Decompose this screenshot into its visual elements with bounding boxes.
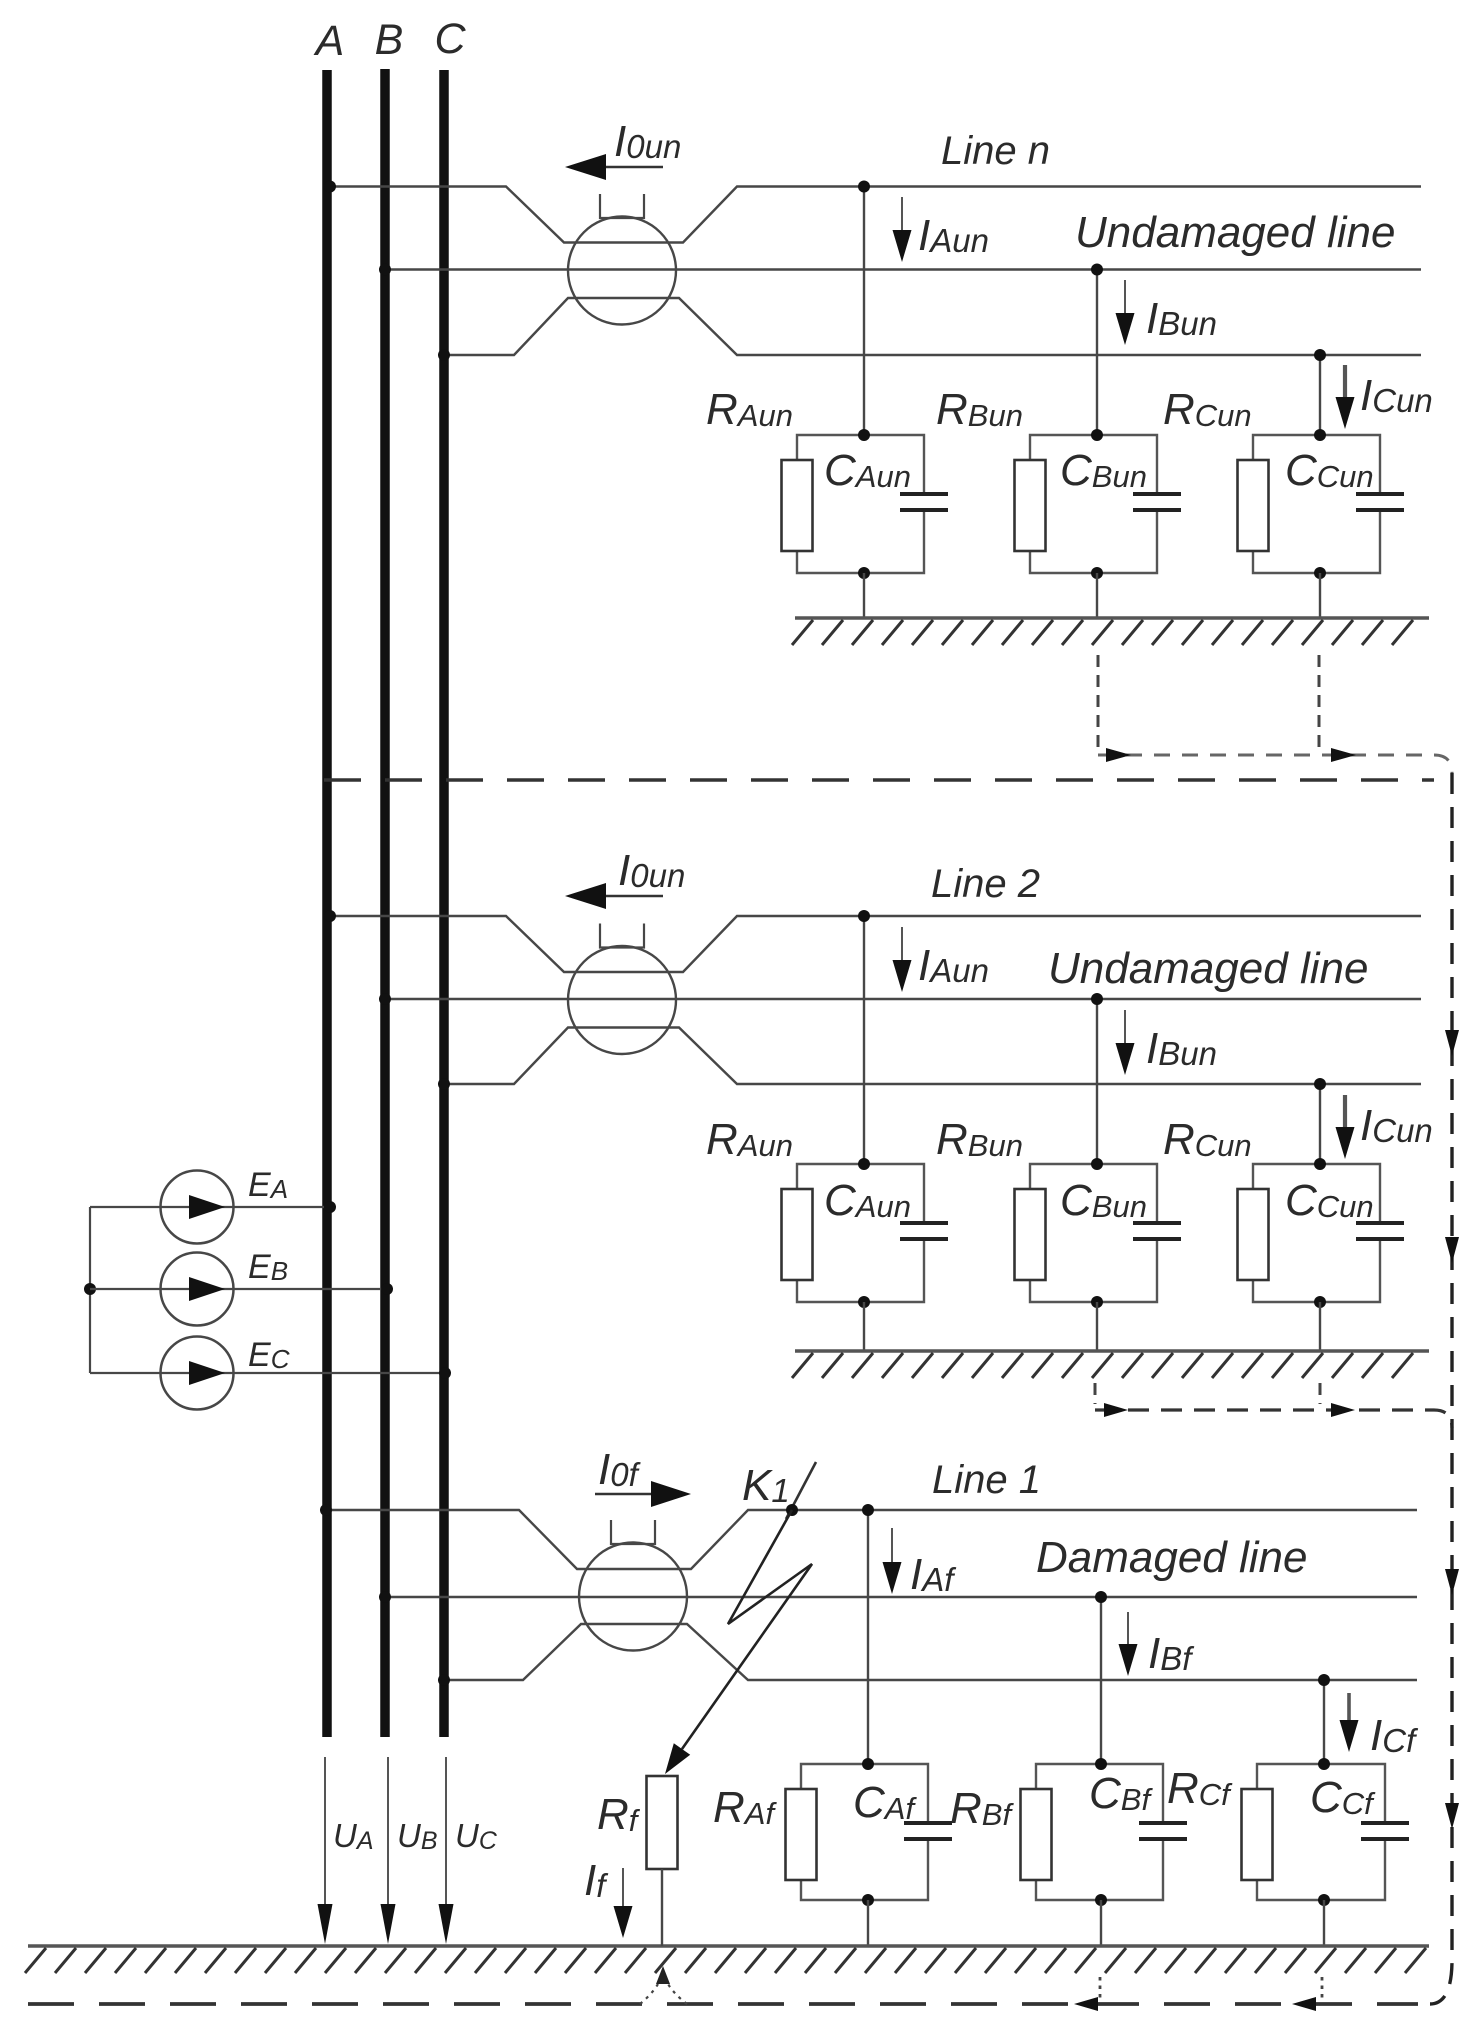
wire EC to bus C bbox=[90, 1372, 445, 1374]
current transformer T Line n bbox=[568, 217, 676, 325]
RC box edges A Line 1 bbox=[801, 1764, 928, 1900]
arrow I0un Line n bbox=[565, 154, 663, 180]
label IAf bbox=[910, 1550, 957, 1599]
node phase C tap on bus C Line 2 bbox=[438, 1078, 450, 1090]
wire box B to ground Line 1 bbox=[1100, 1900, 1102, 1946]
node box C top Line n bbox=[1314, 429, 1326, 441]
wire phase C Line n bbox=[444, 298, 1421, 355]
svg-text:Damaged line: Damaged line bbox=[1036, 1533, 1308, 1582]
source EC bbox=[161, 1337, 234, 1410]
node box B bottom Line n bbox=[1091, 567, 1103, 579]
label EC bbox=[248, 1336, 290, 1374]
label IAun Line n bbox=[918, 211, 989, 260]
RC box edges C Line n bbox=[1253, 435, 1380, 573]
node phase A tap on bus A Line 1 bbox=[320, 1504, 332, 1516]
label RBf bbox=[950, 1784, 1014, 1833]
svg-text:A: A bbox=[313, 17, 345, 65]
capacitor CB Line 2 bbox=[1133, 1223, 1181, 1239]
node tap C top Line n bbox=[1314, 349, 1326, 361]
label EA bbox=[248, 1166, 288, 1204]
label RBun Line n bbox=[936, 385, 1023, 434]
resistor RB Line n bbox=[1015, 460, 1046, 551]
source EA bbox=[161, 1171, 234, 1244]
arrowhead return vertical 3 bbox=[1445, 1569, 1459, 1595]
label CBf bbox=[1089, 1769, 1153, 1818]
svg-text:B: B bbox=[375, 16, 404, 64]
label RAf bbox=[713, 1783, 777, 1832]
arrowhead return vertical 4 bbox=[1445, 1803, 1459, 1829]
dashed return vertical bbox=[1430, 773, 1452, 2004]
wire box A to ground Line 2 bbox=[863, 1302, 865, 1351]
node EB on bus B bbox=[381, 1283, 393, 1295]
bus C bbox=[439, 70, 449, 1737]
wire phase C Line 2 bbox=[444, 1028, 1421, 1085]
arrow If bbox=[614, 1868, 633, 1938]
wire phase A Line 2 bbox=[330, 916, 1421, 972]
node K1 fault point bbox=[786, 1504, 798, 1516]
wire source rail bbox=[89, 1207, 91, 1373]
RC box edges C Line 1 bbox=[1257, 1764, 1385, 1900]
label IAun Line 2 bbox=[918, 941, 989, 990]
resistor RC Line 1 bbox=[1242, 1789, 1273, 1880]
arrow IBun Line 2 bbox=[1116, 1010, 1135, 1075]
arrow IAun Line 2 bbox=[893, 927, 912, 992]
RC box edges C Line 2 bbox=[1253, 1164, 1380, 1302]
label ICun Line n bbox=[1360, 371, 1433, 420]
wire Rf to ground bbox=[661, 1869, 663, 1946]
node source rail bbox=[84, 1283, 96, 1295]
node phase A tap on bus A Line n bbox=[324, 181, 336, 193]
label CCun Line 2 bbox=[1285, 1176, 1374, 1225]
node box C bottom Line 2 bbox=[1314, 1296, 1326, 1308]
label RAun Line n bbox=[706, 385, 793, 434]
label I0un Line 2 bbox=[618, 846, 685, 895]
bus B bbox=[380, 69, 390, 1737]
dashed return stub C Line n bbox=[1318, 655, 1321, 750]
label RBun Line 2 bbox=[936, 1115, 1023, 1164]
arrow IAf bbox=[883, 1528, 902, 1594]
label If bbox=[584, 1856, 609, 1905]
node box B top Line n bbox=[1091, 429, 1103, 441]
wire box C to ground Line n bbox=[1319, 573, 1321, 618]
node box C bottom Line 1 bbox=[1318, 1894, 1330, 1906]
bus A bbox=[322, 70, 332, 1737]
wire phase B Line 1 bbox=[385, 1596, 1417, 1598]
dashed return path Line n bbox=[1098, 755, 1452, 773]
arrow ICun Line n bbox=[1336, 365, 1355, 429]
arrow ICun Line 2 bbox=[1336, 1095, 1355, 1159]
resistor RC Line 2 bbox=[1238, 1189, 1269, 1280]
arrowhead return 2 Line 2 bbox=[1331, 1403, 1355, 1417]
wire phase A Line 1 bbox=[326, 1510, 1417, 1569]
RC box edges B Line 2 bbox=[1030, 1164, 1157, 1302]
wire box B to ground Line 2 bbox=[1096, 1302, 1098, 1351]
resistor RA Line 1 bbox=[786, 1789, 817, 1880]
label Rf bbox=[597, 1790, 641, 1839]
dashed bottom return line bbox=[28, 2002, 1418, 2006]
capacitor CB Line n bbox=[1133, 494, 1181, 510]
T Line n secondary terminals bbox=[600, 194, 644, 218]
capacitor CA Line n bbox=[900, 494, 948, 510]
capacitor CA Line 2 bbox=[900, 1223, 948, 1239]
node box B bottom Line 1 bbox=[1095, 1894, 1107, 1906]
ground Line 2 bbox=[792, 1351, 1429, 1378]
label UC bbox=[455, 1817, 498, 1855]
svg-text:Line n: Line n bbox=[941, 129, 1050, 173]
arrowhead return 1 Line 2 bbox=[1104, 1403, 1128, 1417]
node box C top Line 1 bbox=[1318, 1758, 1330, 1770]
T Line 1 secondary terminals bbox=[611, 1520, 655, 1544]
svg-text:Line 2: Line 2 bbox=[931, 862, 1040, 906]
switch K1 slash bbox=[786, 1462, 816, 1519]
capacitor CC Line 1 bbox=[1361, 1823, 1409, 1839]
dashed partition line bbox=[324, 778, 1434, 781]
capacitor CC Line n bbox=[1356, 494, 1404, 510]
bus C label bbox=[434, 15, 466, 63]
label Line n bbox=[941, 129, 1050, 173]
label RCun Line n bbox=[1163, 385, 1252, 434]
label Damaged line bbox=[1036, 1533, 1308, 1582]
arrow UB bbox=[381, 1757, 396, 1944]
label CCf bbox=[1310, 1773, 1376, 1822]
arrow ICf bbox=[1340, 1693, 1359, 1752]
wire box C to ground Line 2 bbox=[1319, 1302, 1321, 1351]
node box A bottom Line 1 bbox=[862, 1894, 874, 1906]
wire tap phase A Line 2 bbox=[863, 916, 865, 1164]
wire tap phase A Line 1 bbox=[867, 1510, 869, 1764]
bus A label bbox=[313, 17, 345, 65]
arrowhead return 1 Line n bbox=[1106, 748, 1131, 762]
label RAun Line 2 bbox=[706, 1115, 793, 1164]
label Undamaged line Line n bbox=[1075, 208, 1395, 257]
label CCun Line n bbox=[1285, 446, 1374, 495]
node EA on bus A bbox=[324, 1201, 336, 1213]
node tap A top Line n bbox=[858, 181, 870, 193]
source EB bbox=[161, 1253, 234, 1326]
node phase C tap on bus C Line 1 bbox=[438, 1674, 450, 1686]
capacitor CC Line 2 bbox=[1356, 1223, 1404, 1239]
node box A top Line 2 bbox=[858, 1158, 870, 1170]
node box B top Line 2 bbox=[1091, 1158, 1103, 1170]
node EC on bus C bbox=[439, 1367, 451, 1379]
wire box A to ground Line n bbox=[863, 573, 865, 618]
node box C bottom Line n bbox=[1314, 567, 1326, 579]
current transformer T Line 2 bbox=[568, 946, 676, 1054]
ground Line 1 bbox=[25, 1946, 1429, 1973]
wire tap phase B Line 1 bbox=[1100, 1597, 1102, 1764]
label RCf bbox=[1167, 1764, 1233, 1813]
wire tap phase B Line n bbox=[1096, 270, 1098, 436]
wire phase B Line n bbox=[385, 268, 1421, 270]
arrow I0un Line 2 bbox=[565, 883, 663, 909]
node tap B top Line 2 bbox=[1091, 993, 1103, 1005]
arrowhead return 2 Line n bbox=[1331, 748, 1356, 762]
svg-text:Line 1: Line 1 bbox=[932, 1458, 1041, 1502]
wire phase C Line 1 bbox=[444, 1624, 1417, 1680]
node phase B tap on bus B Line 1 bbox=[379, 1591, 391, 1603]
node box A top Line 1 bbox=[862, 1758, 874, 1770]
label CAun Line 2 bbox=[824, 1176, 911, 1225]
wire tap phase B Line 2 bbox=[1096, 999, 1098, 1164]
node box B top Line 1 bbox=[1095, 1758, 1107, 1770]
label CAf bbox=[853, 1778, 917, 1827]
capacitor CB Line 1 bbox=[1139, 1823, 1187, 1839]
label I0un Line n bbox=[614, 117, 681, 166]
node tap B top Line n bbox=[1091, 264, 1103, 276]
resistor RA Line 2 bbox=[782, 1189, 813, 1280]
arrow IBf bbox=[1119, 1612, 1138, 1676]
resistor Rf bbox=[647, 1776, 678, 1869]
RC box edges A Line n bbox=[797, 435, 924, 573]
svg-text:Undamaged line: Undamaged line bbox=[1048, 944, 1368, 993]
bus B label bbox=[375, 16, 404, 64]
label CBun Line 2 bbox=[1060, 1176, 1147, 1225]
dotted stub bottom B bbox=[1099, 1977, 1102, 2000]
arrow IAun Line n bbox=[893, 197, 912, 262]
wire phase A Line n bbox=[330, 187, 1421, 243]
label ICf bbox=[1370, 1711, 1419, 1760]
label IBun Line 2 bbox=[1146, 1024, 1217, 1073]
wire tap phase A Line n bbox=[863, 187, 865, 436]
arrowhead return vertical 2 bbox=[1445, 1237, 1459, 1263]
label K1 bbox=[742, 1461, 790, 1510]
node tap C top Line 1 bbox=[1318, 1674, 1330, 1686]
T Line 2 secondary terminals bbox=[600, 924, 644, 948]
label IBun Line n bbox=[1146, 294, 1217, 343]
current transformer T Line 1 bbox=[579, 1543, 687, 1651]
label Line 1 bbox=[932, 1458, 1041, 1502]
label RCun Line 2 bbox=[1163, 1115, 1252, 1164]
arrowhead bottom return 1 bbox=[1074, 1997, 1098, 2011]
resistor RB Line 2 bbox=[1015, 1189, 1046, 1280]
wire tap phase C Line 1 bbox=[1323, 1680, 1325, 1764]
svg-text:C: C bbox=[434, 15, 466, 63]
RC box edges B Line 1 bbox=[1036, 1764, 1163, 1900]
label Line 2 bbox=[931, 862, 1040, 906]
wire tap phase C Line 2 bbox=[1319, 1084, 1321, 1164]
RC box edges B Line n bbox=[1030, 435, 1157, 573]
wire tap phase C Line n bbox=[1319, 355, 1321, 435]
node phase B tap on bus B Line 2 bbox=[379, 993, 391, 1005]
arrow IBun Line n bbox=[1116, 280, 1135, 345]
resistor RC Line n bbox=[1238, 460, 1269, 551]
node box C top Line 2 bbox=[1314, 1158, 1326, 1170]
wire phase B Line 2 bbox=[385, 998, 1421, 1000]
node phase B tap on bus B Line n bbox=[379, 264, 391, 276]
svg-text:Undamaged line: Undamaged line bbox=[1075, 208, 1395, 257]
dashed return path Line 2 bbox=[1095, 1410, 1452, 1428]
dashed return stub B Line 2 bbox=[1094, 1383, 1097, 1404]
node box A bottom Line 2 bbox=[858, 1296, 870, 1308]
arrow UC bbox=[439, 1757, 454, 1944]
RC box edges A Line 2 bbox=[797, 1164, 924, 1302]
label CAun Line n bbox=[824, 446, 911, 495]
dashed return stub B Line n bbox=[1097, 655, 1100, 750]
label I0f Line 1 bbox=[598, 1445, 642, 1494]
node tap B top Line 1 bbox=[1095, 1591, 1107, 1603]
label EB bbox=[248, 1248, 288, 1286]
node box A top Line n bbox=[858, 429, 870, 441]
dotted stub bottom C bbox=[1321, 1977, 1324, 2000]
node phase C tap on bus C Line n bbox=[438, 349, 450, 361]
label ICun Line 2 bbox=[1360, 1101, 1433, 1150]
node tap C top Line 2 bbox=[1314, 1078, 1326, 1090]
node phase A tap on bus A Line 2 bbox=[324, 910, 336, 922]
node box B bottom Line 2 bbox=[1091, 1296, 1103, 1308]
label IBf bbox=[1148, 1629, 1195, 1678]
node tap A top Line 1 bbox=[862, 1504, 874, 1516]
arrow UA bbox=[318, 1757, 333, 1944]
arrowhead return vertical 1 bbox=[1445, 1030, 1459, 1056]
wire box A to ground Line 1 bbox=[867, 1900, 869, 1946]
resistor RB Line 1 bbox=[1021, 1789, 1052, 1880]
node box A bottom Line n bbox=[858, 567, 870, 579]
dashed return stub C Line 2 bbox=[1319, 1383, 1322, 1404]
fault lightning bolt bbox=[665, 1510, 812, 1774]
label UA bbox=[333, 1817, 374, 1855]
resistor RA Line n bbox=[782, 460, 813, 551]
arrow I0f Line 1 bbox=[595, 1481, 691, 1507]
label CBun Line n bbox=[1060, 446, 1147, 495]
node tap A top Line 2 bbox=[858, 910, 870, 922]
dotted fault return arrow bbox=[640, 1966, 687, 2004]
ground Line n bbox=[792, 618, 1429, 645]
wire box C to ground Line 1 bbox=[1323, 1900, 1325, 1946]
label Undamaged line Line 2 bbox=[1048, 944, 1368, 993]
wire EB to bus B bbox=[90, 1288, 387, 1290]
wire box B to ground Line n bbox=[1096, 573, 1098, 618]
capacitor CA Line 1 bbox=[904, 1823, 952, 1839]
wire EA to bus A bbox=[90, 1206, 330, 1208]
arrowhead bottom return 2 bbox=[1292, 1997, 1316, 2011]
label UB bbox=[397, 1817, 438, 1855]
